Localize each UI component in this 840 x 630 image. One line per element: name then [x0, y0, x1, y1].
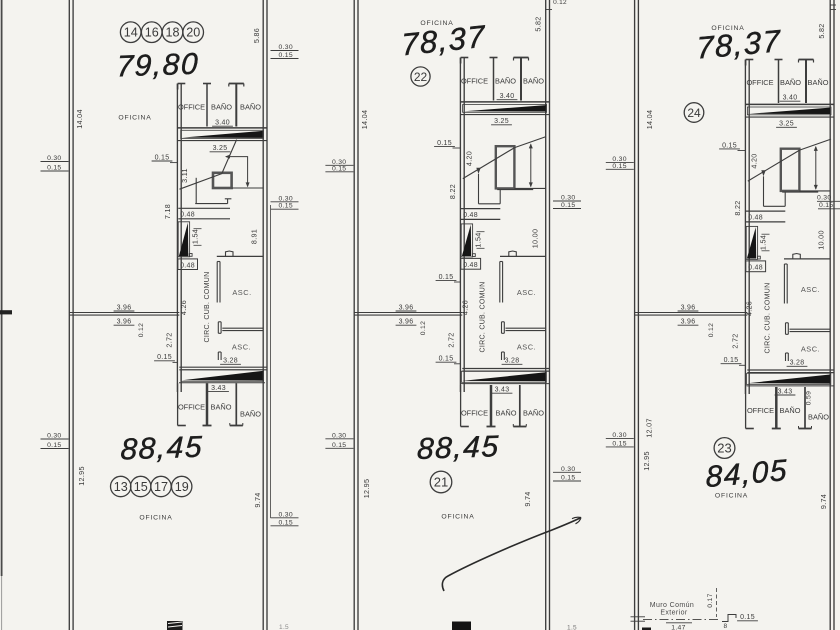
svg-text:3.28: 3.28: [790, 360, 805, 367]
unit3 left wall thickness ticks 0.30 0.15 lower: [606, 432, 634, 448]
unit2 top wedge (slab taper): [463, 105, 547, 113]
unit2 elevator dim 3.28: [502, 358, 523, 365]
svg-text:15: 15: [134, 480, 148, 494]
unit3 ramp dim 1.54: [759, 234, 770, 251]
svg-text:20: 20: [186, 26, 200, 40]
svg-text:0.15: 0.15: [612, 163, 626, 170]
unit3 elevator dim 3.28: [787, 360, 808, 367]
svg-text:BAÑO: BAÑO: [808, 413, 829, 422]
unit3 stair lower diagonal: [748, 150, 800, 181]
unit1 elevator ASC2 label: [232, 343, 251, 352]
unit3 stair vertical dim line with arrows: [814, 146, 818, 190]
svg-text:OFFICE: OFFICE: [178, 103, 205, 112]
svg-text:3.25: 3.25: [779, 121, 794, 128]
unit3 left wall thickness ticks 0.30 0.15 upper: [606, 156, 634, 170]
unit1 left wall thickness ticks 0.30 0.15 lower: [41, 433, 69, 450]
svg-text:4.26: 4.26: [179, 300, 188, 315]
unit3 stair duct box: [781, 149, 800, 191]
svg-text:0.48: 0.48: [463, 212, 478, 219]
unit2 corridor dim 4.26: [461, 300, 470, 315]
unit1 party wall between offices: [0, 310, 179, 315]
svg-text:OFICINA: OFICINA: [441, 514, 474, 521]
unit1 toilet row top labels: [178, 103, 261, 112]
unit1 elevator divider wall: [218, 322, 263, 334]
svg-text:0.30: 0.30: [817, 195, 831, 202]
svg-text:4.20: 4.20: [750, 153, 759, 168]
svg-text:22: 22: [414, 70, 428, 84]
unit1 party wall dim 0.12: [138, 323, 145, 337]
unit2 right exterior wall: [546, 0, 550, 630]
unit3 right wall dim 5.82: [817, 23, 826, 38]
svg-text:0.15: 0.15: [561, 202, 575, 209]
unit2 left wall thickness ticks 0.30 0.15 upper: [325, 159, 353, 173]
svg-text:10.00: 10.00: [531, 229, 540, 249]
unit2 party wall dim 3.96 upper: [396, 304, 417, 311]
svg-text:0.15: 0.15: [561, 475, 575, 482]
unit2 toilet row top labels: [461, 77, 544, 86]
svg-text:0.15: 0.15: [279, 519, 293, 526]
svg-text:0.15: 0.15: [437, 140, 452, 147]
svg-text:0.12: 0.12: [553, 0, 567, 6]
svg-text:4.26: 4.26: [745, 301, 754, 316]
svg-text:3.96: 3.96: [399, 319, 414, 326]
unit2 stair vertical dim line with arrows: [529, 143, 533, 187]
unit3 party wall dim 3.96 lower: [678, 319, 699, 326]
svg-text:OFICINA: OFICINA: [715, 493, 748, 500]
unit1 vestibule dim 0.48 lower box: [178, 259, 198, 270]
svg-text:3.40: 3.40: [215, 120, 230, 127]
unit1 corridor label CIRC CUB COMUN: [204, 272, 211, 343]
svg-text:BAÑO: BAÑO: [808, 78, 829, 87]
unit2 stair step edge: [479, 174, 534, 204]
unit1 stair upper diagonal: [222, 140, 237, 174]
unit1 stair lower diagonal: [180, 174, 222, 190]
unit3 bottom dash-dot line: [643, 619, 718, 621]
svg-text:0.15: 0.15: [47, 165, 61, 172]
unit1 corridor dim 4.26: [179, 300, 188, 315]
svg-text:3.43: 3.43: [778, 388, 793, 395]
unit2 corridor dim 8.22: [448, 184, 457, 199]
unit1 elevator ASC1 left wall: [217, 262, 220, 303]
svg-text:4.20: 4.20: [465, 151, 474, 166]
svg-text:3.40: 3.40: [783, 95, 798, 102]
unit3 handwritten area 84,05: [705, 454, 788, 494]
unit2 party wall dim 3.96 lower: [396, 319, 417, 326]
svg-text:0.17: 0.17: [707, 593, 714, 607]
unit3 stair step edge: [764, 176, 819, 206]
unit2 core bottom wall: [462, 369, 549, 372]
unit1 core dim 8.91: [250, 229, 259, 244]
unit3 dim 0.59: [806, 391, 813, 405]
scan edge dark line left: [1, 0, 3, 630]
unit3 corridor dim 4.26: [745, 301, 754, 316]
unit3 line below top wedge: [745, 116, 834, 118]
unit3 left wall bottom ticks: [631, 617, 646, 621]
unit2 core dim 0.15 mid: [436, 274, 461, 282]
svg-text:24: 24: [687, 106, 701, 120]
svg-text:9.74: 9.74: [523, 491, 532, 506]
svg-text:0.48: 0.48: [748, 215, 763, 222]
svg-text:0.48: 0.48: [180, 262, 195, 269]
unit3 left wall dim 14.04: [645, 110, 654, 130]
unit2 elevator ASC2 label: [517, 343, 536, 352]
svg-text:OFFICE: OFFICE: [178, 403, 205, 412]
unit3 line box to wall: [799, 190, 830, 192]
unit2 bottom wedge: [461, 371, 550, 383]
svg-text:12.95: 12.95: [77, 466, 86, 486]
unit1 right wall thickness ticks 0.30 0.15 low: [271, 511, 299, 526]
unit1 circled numbers 13 15 17 19: [111, 476, 192, 496]
unit3 toilet row dim 3.40: [780, 95, 801, 102]
unit2 toilet row top OFFICE BANO BANO: [461, 58, 529, 101]
unit3 elevator ASC1 top wall with jamb: [784, 254, 830, 259]
unit2 toilet row bottom labels: [461, 409, 544, 418]
unit2 circled number 21: [430, 471, 452, 493]
unit1 ramp black triangle: [178, 222, 192, 257]
svg-text:9.74: 9.74: [253, 492, 262, 507]
svg-text:5.86: 5.86: [252, 28, 261, 43]
unit1 right wall dim 9.74: [253, 492, 262, 507]
unit3 bottom dim 0.15: [737, 614, 758, 621]
svg-text:5.82: 5.82: [534, 16, 543, 31]
unit2 stair dim 3.25: [491, 118, 512, 125]
svg-text:88,45: 88,45: [120, 431, 204, 467]
unit1 top wedge (slab taper): [181, 130, 264, 138]
unit3 bottom wedge dim 3.43: [775, 388, 796, 395]
svg-text:3.96: 3.96: [399, 304, 414, 311]
unit1 vestibule 0.48 wall band: [178, 208, 230, 219]
svg-text:78,37: 78,37: [696, 23, 782, 65]
svg-text:3.28: 3.28: [223, 358, 238, 365]
svg-text:3.11: 3.11: [180, 168, 189, 183]
unit3 core bottom wall: [747, 370, 834, 373]
svg-text:0.48: 0.48: [463, 262, 478, 269]
svg-text:BAÑO: BAÑO: [211, 103, 232, 112]
svg-text:12.95: 12.95: [642, 451, 651, 471]
unit2 left wall dim 14.04: [360, 110, 369, 130]
svg-text:3.43: 3.43: [211, 385, 226, 392]
svg-text:3.28: 3.28: [505, 358, 520, 365]
svg-text:0.48: 0.48: [180, 212, 195, 219]
unit3 elevator ASC1 label: [801, 285, 820, 294]
svg-text:2.72: 2.72: [165, 332, 174, 347]
unit1 right exterior wall: [263, 0, 270, 630]
svg-text:3.40: 3.40: [500, 93, 515, 100]
unit3 right wall thickness ticks 0.30 0.15 mid: [817, 195, 840, 210]
unit3 elevator ASC1 left wall: [784, 264, 787, 304]
svg-text:0.59: 0.59: [806, 391, 813, 405]
unit2 right wall top tick: [546, 0, 567, 10]
svg-text:8.22: 8.22: [733, 200, 742, 215]
unit2 vestibule dim 0.48 lower box: [461, 258, 481, 269]
svg-text:14: 14: [124, 26, 138, 40]
unit2 handwritten area 78,37: [401, 19, 487, 63]
svg-text:8: 8: [724, 623, 728, 630]
unit3 toilet row bottom: [746, 387, 812, 429]
svg-text:0.30: 0.30: [279, 44, 293, 51]
unit3 bottom wedge: [746, 373, 835, 386]
unit1 right wall dim 5.86: [252, 28, 261, 43]
unit2 stair dim 4.20: [465, 151, 474, 166]
svg-text:17: 17: [154, 480, 168, 494]
unit3 toilet row bottom labels: [747, 406, 829, 422]
svg-text:0.15: 0.15: [722, 142, 737, 149]
unit3 stair dim 3.25: [776, 121, 797, 128]
svg-text:12.07: 12.07: [645, 418, 654, 438]
unit1 core dim 0.15 lower: [154, 354, 178, 362]
svg-text:ASC.: ASC.: [517, 288, 536, 297]
svg-text:1.5: 1.5: [567, 625, 577, 630]
unit3 corridor dim 8.22: [733, 200, 742, 215]
svg-text:ASC.: ASC.: [517, 343, 536, 352]
unit2 corridor label CIRC CUB COMUN: [480, 282, 487, 353]
svg-text:3.43: 3.43: [495, 387, 510, 394]
unit3 party wall dim 3.96 upper: [678, 304, 699, 311]
svg-text:0.30: 0.30: [47, 433, 61, 440]
unit3 circled number 23: [714, 438, 735, 459]
unit2 ramp black triangle: [461, 224, 475, 257]
svg-text:0.15: 0.15: [740, 614, 755, 621]
svg-text:1.47: 1.47: [671, 625, 685, 630]
unit1 toilet slab line: [178, 127, 267, 129]
svg-text:OFFICE: OFFICE: [747, 406, 774, 415]
svg-text:OFFICE: OFFICE: [746, 78, 773, 87]
svg-text:0.15: 0.15: [332, 442, 346, 449]
unit3 right wall dim 9.74: [819, 494, 828, 509]
unit1 bottom faint 1.5: [279, 624, 289, 630]
unit1 elevator ASC1 top wall with jamb: [217, 251, 263, 256]
svg-text:Exterior: Exterior: [660, 610, 688, 617]
unit1 core left wall: [177, 84, 181, 393]
svg-text:0.15: 0.15: [612, 440, 626, 447]
svg-text:BAÑO: BAÑO: [780, 78, 801, 87]
unit2 elevator jamb lower: [502, 352, 505, 360]
svg-text:OFFICE: OFFICE: [461, 409, 488, 418]
svg-text:OFFICE: OFFICE: [461, 77, 488, 86]
svg-text:CIRC. CUB. COMUN: CIRC. CUB. COMUN: [480, 282, 487, 353]
unit2 party wall between offices: [354, 313, 462, 316]
unit3 stair arrow tick: [761, 170, 765, 176]
unit1 core wall dim 0.15 upper: [152, 154, 178, 162]
svg-text:0.15: 0.15: [157, 354, 172, 361]
unit1 line below top wedge: [178, 140, 267, 142]
unit1 lower office label OFICINA: [139, 515, 172, 522]
svg-text:1.54: 1.54: [191, 229, 200, 244]
svg-text:0.30: 0.30: [279, 195, 293, 202]
unit3 toilet row top OFFICE BANO BANO: [746, 60, 814, 104]
unit1 stair dim 3.25: [210, 145, 231, 152]
svg-text:CIRC. CUB. COMUN: CIRC. CUB. COMUN: [765, 283, 772, 354]
svg-text:1.54: 1.54: [759, 235, 768, 250]
unit2 right wall thickness ticks 0.30 0.15 mid: [553, 195, 581, 210]
unit1 stair dim 3.11: [180, 168, 189, 183]
svg-text:3.96: 3.96: [681, 304, 696, 311]
svg-text:9.74: 9.74: [819, 494, 828, 509]
svg-text:0.30: 0.30: [612, 432, 626, 439]
unit3 right wall top tick: [830, 5, 836, 10]
unit1 stair dim bracket arrow: [225, 155, 250, 188]
svg-text:0.30: 0.30: [279, 511, 293, 518]
unit1 elevator ASC1 label: [232, 288, 251, 297]
unit1 bottom wedge dim 3.43: [208, 385, 229, 392]
svg-text:12.95: 12.95: [362, 479, 371, 499]
unit2 toilet slab line: [461, 101, 550, 103]
unit2 elevator ASC1 label: [517, 288, 536, 297]
svg-text:BAÑO: BAÑO: [496, 409, 517, 418]
unit1 party wall dim 3.96 lower: [114, 319, 135, 326]
svg-text:79,80: 79,80: [116, 48, 200, 84]
unit3 left wall dim 12.07: [645, 418, 654, 438]
unit2 right wall dim 9.74: [523, 491, 532, 506]
svg-text:ASC.: ASC.: [801, 285, 820, 294]
unit1 right wall thickness ticks 0.30 0.15 mid: [271, 195, 299, 209]
unit1 left exterior wall: [69, 0, 73, 630]
unit1 right wall thickness ticks 0.30 0.15 top: [271, 44, 299, 59]
unit1 circled numbers 14 16 18 20: [120, 22, 203, 43]
unit3 lower office label OFICINA: [715, 493, 748, 500]
svg-text:ASC.: ASC.: [232, 288, 251, 297]
unit2 core wall dim 0.15 upper: [434, 140, 461, 148]
unit3 party wall between offices: [635, 313, 748, 316]
svg-text:Muro Común: Muro Común: [650, 602, 694, 609]
svg-text:0.15: 0.15: [439, 274, 454, 281]
svg-text:0.15: 0.15: [439, 356, 454, 363]
unit3 bottom black mark: [642, 628, 651, 630]
svg-text:1.54: 1.54: [474, 232, 483, 247]
svg-text:0.48: 0.48: [748, 264, 763, 271]
unit3 elevator ASC2 label: [801, 345, 820, 354]
unit2 bottom wall section mark: [452, 622, 471, 630]
svg-text:88,45: 88,45: [417, 430, 501, 466]
svg-text:3.25: 3.25: [494, 118, 509, 125]
unit1 bottom wall section hatch: [167, 621, 183, 630]
unit3 core dim 10.00: [817, 230, 826, 250]
unit3 party wall dim 0.12: [708, 323, 715, 337]
unit3 circled number 24: [684, 103, 704, 123]
unit1 core bottom wall: [179, 367, 267, 370]
svg-text:10.00: 10.00: [817, 230, 826, 250]
unit2 circled number 22: [411, 67, 430, 86]
unit1 stair step edge: [195, 178, 231, 204]
unit2 elevator ASC1 top wall with jamb: [500, 251, 546, 256]
unit1 toilet row bottom: [178, 383, 243, 425]
unit2 toilet row dim 3.40: [497, 93, 518, 100]
svg-text:1.5: 1.5: [279, 624, 289, 630]
unit3 vestibule dim 0.48 lower box: [746, 261, 766, 272]
unit2 bottom wedge dim 3.43: [492, 387, 513, 394]
unit1 toilet row top OFFICE BANO BANO: [178, 84, 244, 127]
svg-text:OFICINA: OFICINA: [139, 515, 172, 522]
unit2 ramp dim 1.54: [474, 232, 485, 249]
unit3 toilet slab line: [745, 103, 834, 105]
unit2 party wall dim 0.12: [420, 321, 427, 335]
svg-text:3.96: 3.96: [117, 319, 132, 326]
unit2 elevator ASC1 left wall: [500, 262, 503, 303]
unit2 stair upper diagonal: [515, 137, 546, 148]
unit3 corridor dim 2.72: [731, 333, 740, 348]
unit3 ramp black triangle: [746, 226, 760, 259]
unit2 lower office label OFICINA: [441, 514, 474, 521]
unit3 core wall dim 0.15 upper: [719, 142, 745, 150]
unit3 left exterior wall: [635, 0, 639, 630]
svg-text:0.15: 0.15: [332, 165, 346, 172]
unit2 stair arrow tick: [476, 168, 480, 174]
unit1 elevator dim 3.28: [220, 358, 241, 365]
svg-text:8.91: 8.91: [250, 229, 259, 244]
svg-text:0.15: 0.15: [724, 357, 739, 364]
svg-text:0.12: 0.12: [138, 323, 145, 337]
svg-text:3.25: 3.25: [213, 145, 228, 152]
unit2 handwritten area 88,45: [417, 430, 501, 466]
svg-text:0.12: 0.12: [420, 321, 427, 335]
unit1 left wall dim 14.04: [75, 109, 84, 129]
unit3 left wall dim 12.95: [642, 451, 651, 471]
svg-text:BAÑO: BAÑO: [523, 409, 544, 418]
svg-text:0.30: 0.30: [561, 195, 575, 202]
svg-text:0.15: 0.15: [819, 202, 833, 209]
unit3 muro comun exterior label: [650, 602, 694, 617]
unit2 vestibule 0.48 wall band: [461, 209, 500, 220]
unit3 elevator jamb lower: [786, 353, 789, 361]
svg-text:0.30: 0.30: [561, 466, 575, 473]
svg-text:18: 18: [165, 26, 179, 40]
svg-text:19: 19: [175, 480, 189, 494]
unit2 line below top wedge: [461, 114, 550, 116]
svg-text:0.15: 0.15: [279, 52, 293, 59]
unit2 stair lower diagonal: [463, 148, 515, 179]
unit1 line box to wall: [232, 187, 264, 189]
unit1 stair duct box: [213, 173, 232, 188]
svg-text:3.96: 3.96: [117, 304, 132, 311]
svg-text:7.18: 7.18: [163, 204, 172, 219]
unit1 elevator jamb lower: [218, 352, 221, 360]
svg-text:ASC.: ASC.: [801, 345, 820, 354]
svg-text:0.15: 0.15: [155, 154, 170, 161]
svg-text:13: 13: [114, 480, 128, 494]
svg-text:14.04: 14.04: [645, 110, 654, 130]
unit2 left wall thickness ticks 0.30 0.15 lower: [325, 432, 353, 449]
svg-text:78,37: 78,37: [401, 19, 487, 63]
svg-text:CIRC. CUB. COMUN: CIRC. CUB. COMUN: [204, 272, 211, 343]
unit3 elevator divider wall: [786, 323, 831, 335]
unit2 left exterior wall: [354, 0, 358, 630]
svg-text:3.96: 3.96: [681, 319, 696, 326]
svg-text:0.12: 0.12: [708, 323, 715, 337]
unit3 core left wall: [745, 60, 749, 395]
svg-text:2.72: 2.72: [731, 333, 740, 348]
unit2 line box to wall: [514, 187, 545, 189]
unit1 upper office label OFICINA: [118, 115, 151, 122]
svg-text:0.30: 0.30: [332, 432, 346, 439]
unit2 stair duct box: [496, 146, 515, 188]
unit2 handwritten swoosh: [442, 517, 581, 591]
svg-text:BAÑO: BAÑO: [211, 403, 232, 412]
svg-text:0.30: 0.30: [47, 155, 61, 162]
unit3 handwritten area 78,37: [696, 23, 782, 65]
unit1 ramp dim 1.54: [191, 229, 202, 246]
svg-text:BAÑO: BAÑO: [523, 77, 544, 86]
unit3 bottom dim 1.47: [666, 623, 692, 630]
svg-text:8.22: 8.22: [448, 184, 457, 199]
unit3 dim 0.17 vertical: [707, 588, 717, 617]
svg-text:BAÑO: BAÑO: [780, 406, 801, 415]
unit3 core dim 0.15 lower: [721, 357, 746, 365]
unit2 left wall dim 12.95: [362, 479, 371, 499]
unit3 toilet row top labels: [746, 78, 828, 87]
unit1 left wall dim 12.95: [77, 466, 86, 486]
svg-text:BAÑO: BAÑO: [495, 77, 516, 86]
unit3 stair dim 4.20: [750, 153, 759, 168]
